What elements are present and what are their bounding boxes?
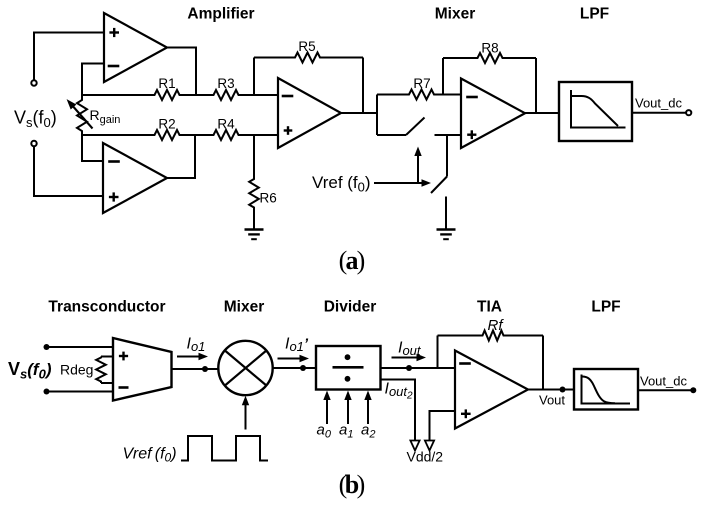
resistor R1 (82, 90, 196, 100)
svg-text:Vout: Vout (539, 393, 565, 408)
svg-text:Transconductor: Transconductor (48, 299, 165, 316)
wire LPF (a) output (632, 112, 686, 114)
U5 + sign (461, 413, 471, 415)
divider ctrl arrow a0 (326, 398, 328, 424)
input node top (b) (44, 344, 50, 350)
svg-text:R3: R3 (217, 76, 234, 91)
G1 - sign (119, 386, 129, 389)
wire R8 feedback right (535, 58, 537, 113)
op-amp U3 (278, 78, 341, 148)
svg-text:TIA: TIA (477, 299, 502, 316)
wire Iout2 (381, 380, 416, 441)
input terminal top (a) (31, 80, 36, 85)
svg-text:Io1: Io1 (187, 336, 206, 355)
wire Vref control (374, 182, 423, 184)
divider ctrl arrow a1 (347, 398, 349, 424)
svg-text:Io1’: Io1’ (285, 336, 309, 355)
output terminal Vout_dc (a) (686, 110, 691, 115)
svg-text:R8: R8 (481, 41, 498, 56)
svg-text:Rdeg: Rdeg (60, 362, 93, 378)
svg-text:Rf: Rf (488, 317, 505, 334)
wire top terminal to U1 + (34, 33, 104, 81)
current arrow Io1 (177, 356, 201, 358)
current arrow Io1prime (278, 358, 303, 360)
wire U4+ node down (446, 135, 448, 177)
wire U1 - input stub (82, 64, 104, 96)
op-amp U4 (461, 79, 525, 149)
wire G1 output (172, 368, 219, 370)
svg-text:Vout_dc: Vout_dc (640, 374, 687, 389)
svg-text:): ) (357, 246, 366, 275)
wire S2 to ground (445, 197, 447, 230)
svg-text:R4: R4 (217, 117, 235, 132)
svg-text:Mixer: Mixer (435, 6, 476, 23)
input node bottom (b) (44, 389, 50, 395)
input terminal bottom (a) (31, 141, 36, 146)
svg-text:Vs(f0): Vs(f0) (14, 108, 57, 131)
U2 - sign (108, 160, 120, 163)
op-amp U1 (104, 13, 167, 82)
LPF block (a) (559, 82, 632, 141)
wire R8 feedback left (442, 58, 444, 95)
mixer LO arrow (245, 404, 247, 430)
mixer M1 X (224, 350, 267, 386)
node Vout (560, 387, 566, 393)
switch S2 blade (431, 177, 447, 194)
wire bottom input (b) (47, 391, 114, 393)
current arrow Iout (392, 357, 420, 359)
svg-text:LPF: LPF (580, 6, 609, 23)
divider ctrl arrow a2 (367, 398, 369, 424)
resistor R8 (443, 53, 536, 63)
wire divider output (381, 367, 456, 369)
node G1-mixer (202, 366, 208, 372)
wire U2 output to R2 node (167, 135, 195, 178)
LPF (a) axes (571, 90, 626, 128)
LPF block (b) (574, 369, 638, 410)
svg-text:Mixer: Mixer (224, 299, 265, 316)
svg-text:Amplifier: Amplifier (187, 6, 254, 23)
node split vertical (376, 95, 378, 136)
wire R5 feedback right (362, 58, 364, 114)
LPF (b) axes (582, 375, 631, 404)
wire LPF (b) output (638, 389, 691, 391)
G1 + sign (119, 355, 128, 357)
U1 - sign (108, 65, 120, 68)
LPF (a) response curve (572, 96, 619, 126)
U1 + sign (109, 31, 119, 33)
resistor R5 (254, 53, 363, 63)
wire Rf feedback right (542, 336, 544, 390)
LPF (b) response curve (582, 377, 615, 404)
mixer M1 circle (218, 341, 272, 395)
wire S1 to U4 + (435, 134, 462, 136)
op-amp U2 (103, 143, 167, 213)
open arrow Iout2 (410, 441, 419, 451)
wire R5 feedback left (253, 58, 255, 96)
open arrow Vdd/2 (425, 441, 434, 451)
resistor R2 (82, 130, 195, 140)
resistor R4 (195, 130, 278, 140)
svg-text:R2: R2 (158, 117, 175, 132)
node mixer-divider (300, 365, 306, 371)
svg-text:Vdd/2: Vdd/2 (407, 449, 444, 465)
square wave Vref (181, 436, 268, 461)
resistor R6 (249, 135, 259, 230)
U3 - sign (282, 95, 294, 98)
svg-text:LPF: LPF (591, 299, 620, 316)
U2 + sign (109, 196, 119, 198)
U3 + sign (284, 129, 293, 131)
switch S1 blade (406, 118, 425, 136)
ground under R6 (245, 228, 264, 231)
wire U3 output (341, 112, 377, 114)
svg-text:R1: R1 (158, 76, 175, 91)
svg-text:Vout_dc: Vout_dc (635, 96, 682, 111)
divider block (316, 346, 381, 390)
wire bottom terminal to U2 + (34, 146, 103, 196)
svg-text:Vs(f0): Vs(f0) (8, 359, 52, 382)
svg-text:R6: R6 (260, 191, 277, 206)
wire U4 output (525, 112, 559, 114)
Rgain arrow (71, 104, 93, 129)
resistor Rf (438, 331, 544, 341)
U4 - sign (466, 96, 478, 99)
svg-text:): ) (357, 470, 366, 499)
svg-text:Divider: Divider (324, 299, 377, 316)
wire TIA output (528, 389, 574, 391)
variable resistor Rgain (77, 95, 87, 135)
ground under S2 (437, 228, 456, 231)
node Iout (406, 365, 412, 371)
wire to U4 - input (443, 94, 461, 96)
resistor R7 (377, 90, 443, 100)
divider sign (333, 366, 364, 369)
wire Vdd/2 to TIA + (430, 411, 456, 440)
wire top input (b) (47, 346, 114, 348)
U4 + sign (467, 133, 476, 135)
wire mixer output (273, 367, 316, 369)
svg-text:R7: R7 (413, 76, 430, 91)
wire U1 output to R1 node (167, 48, 196, 96)
svg-text:Iout: Iout (398, 340, 422, 359)
control arrow up (417, 153, 419, 183)
svg-text:R5: R5 (298, 39, 315, 54)
wire U2 - input stub (82, 135, 103, 161)
transconductor G1 (113, 338, 172, 401)
resistor Rdeg (101, 356, 113, 358)
switch S1 wire (377, 134, 406, 136)
resistor R3 (196, 90, 278, 100)
output node Vout_dc (b) (690, 387, 696, 393)
op-amp TIA U5 (455, 351, 528, 429)
U5 - sign (459, 362, 471, 365)
wire Rf feedback left (437, 336, 439, 369)
